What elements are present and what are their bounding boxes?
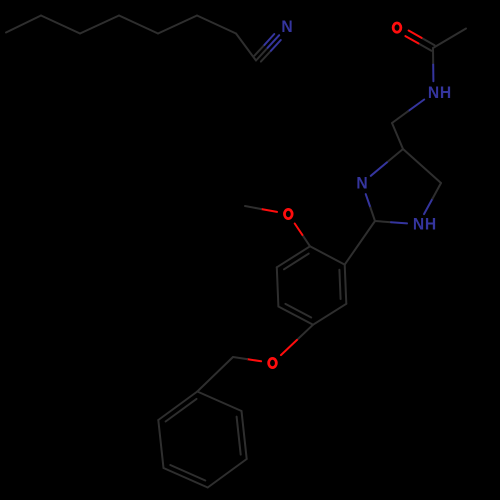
- atom label benzyloxy O (O): [269, 358, 277, 367]
- bond N1-C5: [424, 183, 441, 214]
- bond B_C-B_D: [313, 304, 346, 325]
- bond G4-G5 (double): [164, 465, 208, 488]
- bond G5-G6: [158, 420, 163, 468]
- svg-text:N: N: [281, 17, 292, 36]
- bond V7-V6: [6, 16, 41, 33]
- bond C2i-N1: [375, 221, 407, 223]
- bond C5-C4: [403, 149, 441, 183]
- bond B_D-B_E (double): [278, 304, 313, 325]
- bond B_B-B_C (double): [339, 265, 346, 304]
- bond V1-CN_C: [236, 34, 256, 61]
- svg-text:N: N: [413, 215, 424, 234]
- bond CN_C-CN_N (triple): [254, 34, 280, 62]
- bond G6-G1 (double): [158, 392, 197, 422]
- bond V3-V2: [158, 16, 197, 34]
- bond V2-V1: [197, 16, 236, 34]
- bond B_A-B_B: [310, 246, 345, 264]
- bond B_D-O2: [281, 325, 313, 355]
- bond Ccarb-Oam (double): [405, 31, 434, 51]
- svg-text:H: H: [425, 215, 436, 234]
- atom label methoxy O (O): [284, 209, 292, 218]
- bond V5-V4: [80, 16, 119, 34]
- atom label imidazoline N1-H (NH): [413, 215, 436, 234]
- bond B_A-O1: [295, 224, 310, 247]
- bond V6-V5: [41, 16, 80, 34]
- bond Ccarb-Nam: [432, 48, 434, 81]
- svg-text:N: N: [356, 174, 367, 193]
- bond O1-Ca: [245, 206, 277, 212]
- bond C2i-B_B: [345, 221, 375, 265]
- svg-text:N: N: [428, 83, 439, 102]
- bond CH3a-Ccarb: [433, 29, 466, 49]
- atom label nitrile N (N): [281, 17, 292, 36]
- bond B_F-B_A (double): [277, 246, 310, 269]
- bond Cb-G1: [197, 357, 233, 392]
- bond G2-G3 (double): [237, 411, 247, 459]
- atom label amide NH (NH): [428, 83, 451, 102]
- bond B_E-B_F: [277, 267, 279, 306]
- bond V4-V3: [119, 16, 158, 34]
- atom label imidazoline N3 (N): [356, 174, 367, 193]
- bond N3-C2i: [366, 194, 375, 221]
- bond Nam-CH2: [392, 100, 424, 124]
- bond CH2-C4: [392, 123, 403, 149]
- bond O2-Cb: [233, 357, 261, 361]
- atom label amide carbonyl O (O): [393, 23, 401, 32]
- bond G3-G4: [208, 459, 247, 488]
- bond G1-G2: [197, 392, 241, 412]
- svg-text:H: H: [440, 83, 451, 102]
- bond C4-N3: [371, 149, 403, 176]
